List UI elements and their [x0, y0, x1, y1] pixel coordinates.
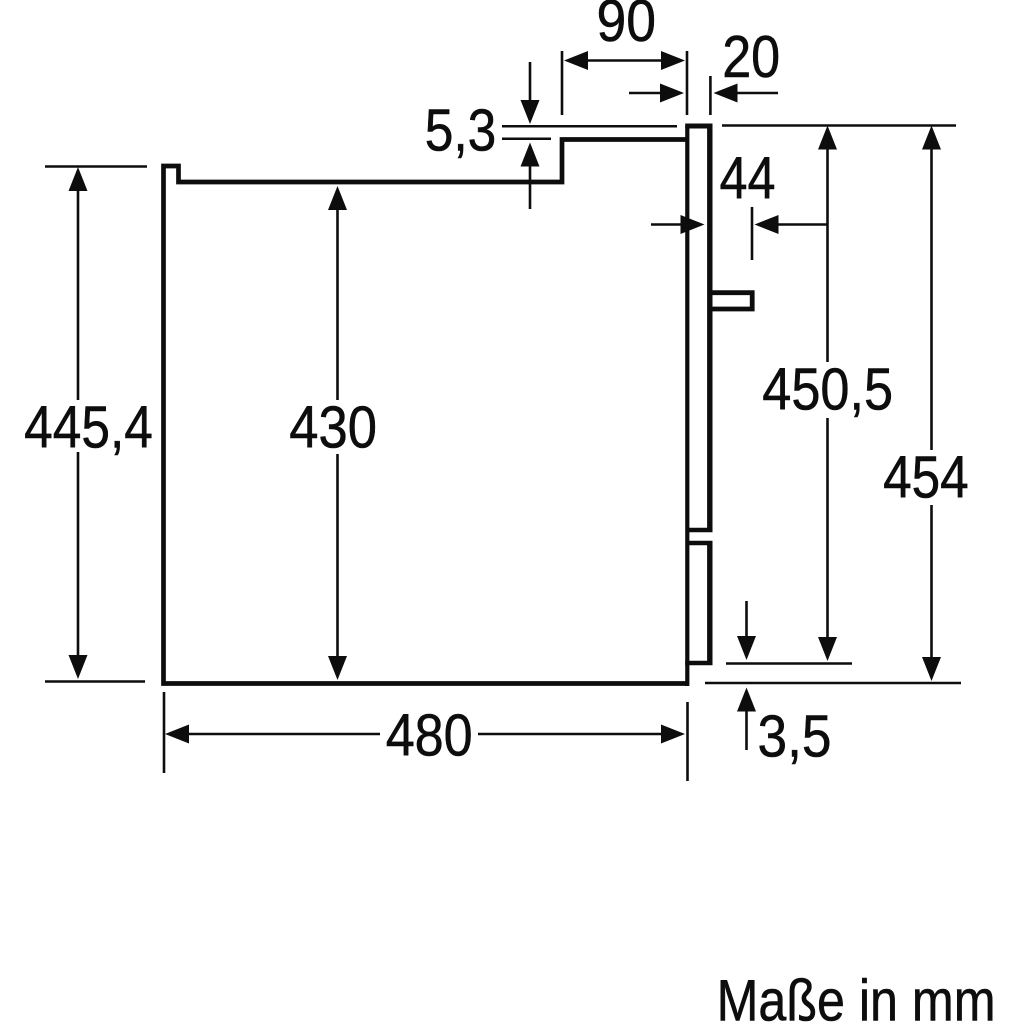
- extension line 454 bottom: [705, 682, 961, 685]
- tick 90/20 shared: [686, 51, 689, 115]
- extension line bottom-left: [45, 680, 145, 683]
- reference line 5,3 lower: [502, 138, 551, 141]
- tick 44: [751, 207, 754, 260]
- dimension arrow 5,3 up: [521, 143, 540, 210]
- dimension arrow 20 pointing left: [714, 84, 779, 103]
- front panel left line: [685, 126, 689, 686]
- front panel top cap: [685, 124, 712, 129]
- tick 90 left: [561, 51, 564, 115]
- tick 480 right: [686, 702, 689, 781]
- svg-text:454: 454: [883, 444, 969, 511]
- extension line 450,5 bottom: [726, 662, 852, 665]
- tab on front panel: [710, 293, 752, 309]
- dimension arrow 44 pointing left: [755, 215, 828, 234]
- dimension line 445,4: [69, 167, 88, 679]
- dimension arrow 5,3 down: [521, 62, 540, 124]
- extension line top-right: [722, 124, 956, 127]
- svg-text:430: 430: [289, 394, 377, 461]
- dimension arrow 44 pointing right: [651, 215, 705, 234]
- front panel joint lower cap: [686, 541, 713, 546]
- extension line top-left: [45, 165, 147, 168]
- svg-text:3,5: 3,5: [758, 703, 832, 770]
- body outline: [164, 140, 689, 684]
- front panel bottom cap: [685, 661, 712, 666]
- svg-text:450,5: 450,5: [762, 356, 893, 423]
- dimension arrow 3,5 down: [737, 601, 756, 660]
- svg-text:44: 44: [720, 145, 776, 212]
- svg-text:90: 90: [597, 0, 657, 54]
- svg-text:5,3: 5,3: [425, 97, 497, 164]
- front panel right line lower: [707, 543, 712, 663]
- dimension arrow 3,5 up: [737, 688, 756, 751]
- svg-text:445,4: 445,4: [24, 394, 153, 461]
- reference line 5,3 upper: [502, 125, 677, 128]
- tick 480 left: [163, 692, 166, 773]
- dimension line 450,5: [818, 126, 837, 662]
- svg-text:Maße in mm: Maße in mm: [717, 969, 996, 1024]
- dimension line 480: [165, 725, 685, 744]
- svg-text:20: 20: [722, 23, 780, 90]
- front panel joint upper cap: [686, 528, 713, 533]
- dimension line 90: [564, 51, 685, 70]
- tick 20 right: [709, 76, 712, 115]
- dimension line 454: [922, 126, 941, 682]
- front panel right line upper: [707, 126, 712, 530]
- svg-text:480: 480: [386, 702, 473, 769]
- dimension line 430: [328, 186, 347, 680]
- dimension arrow 20 pointing right: [629, 84, 684, 103]
